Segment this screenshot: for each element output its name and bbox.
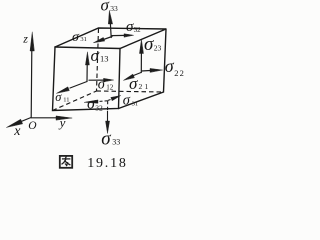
svg-text:33: 33 bbox=[112, 138, 120, 147]
svg-text:σ: σ bbox=[55, 90, 62, 104]
svg-text:13: 13 bbox=[100, 53, 109, 63]
svg-text:σ: σ bbox=[123, 93, 131, 109]
svg-text:22: 22 bbox=[174, 68, 185, 78]
svg-text:σ: σ bbox=[72, 30, 80, 45]
svg-text:σ: σ bbox=[91, 46, 100, 65]
svg-text:σ: σ bbox=[129, 74, 138, 93]
svg-text:32: 32 bbox=[134, 26, 142, 34]
svg-text:23: 23 bbox=[154, 43, 162, 52]
svg-text:12: 12 bbox=[106, 84, 114, 92]
svg-text:33: 33 bbox=[110, 4, 118, 13]
svg-text:19.18: 19.18 bbox=[87, 156, 128, 171]
svg-text:σ: σ bbox=[101, 129, 111, 150]
svg-text:O: O bbox=[28, 120, 37, 132]
svg-text:31: 31 bbox=[132, 101, 139, 108]
svg-text:21: 21 bbox=[139, 82, 151, 91]
svg-text:11: 11 bbox=[63, 97, 69, 104]
svg-text:y: y bbox=[58, 115, 66, 130]
svg-text:31: 31 bbox=[80, 36, 87, 43]
svg-text:σ: σ bbox=[101, 0, 110, 14]
svg-text:32: 32 bbox=[95, 104, 103, 113]
svg-text:x: x bbox=[13, 124, 21, 139]
svg-text:z: z bbox=[22, 31, 28, 45]
svg-text:σ: σ bbox=[98, 77, 106, 93]
svg-text:σ: σ bbox=[144, 34, 154, 55]
